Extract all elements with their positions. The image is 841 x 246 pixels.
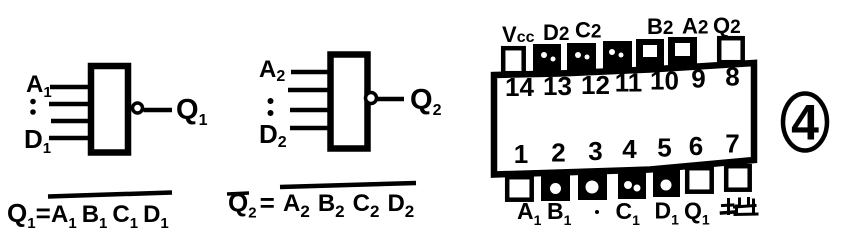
svg-text:2: 2 xyxy=(551,138,565,168)
gate U2 (4-input NAND, middle) xyxy=(331,55,368,149)
ellipsis dots U1 inputs xyxy=(30,99,36,115)
pin 7 (GND) bottom square xyxy=(726,166,750,190)
wire U2 input D2 xyxy=(290,126,329,131)
pin 12 (C2) top square xyxy=(567,43,596,72)
svg-text:6: 6 xyxy=(689,131,703,161)
svg-text:C2: C2 xyxy=(575,18,601,43)
pin 11 top square xyxy=(603,41,632,70)
U1 output inversion bubble xyxy=(133,103,143,113)
ground label (Chinese di, pin 7) xyxy=(722,199,758,215)
svg-text:11: 11 xyxy=(615,68,643,98)
svg-text:B2: B2 xyxy=(647,14,673,39)
wire U2 input B2 xyxy=(288,88,329,93)
wire U2 output xyxy=(378,97,405,102)
pin 5 (D1) bottom square xyxy=(653,166,680,197)
svg-text:4: 4 xyxy=(622,134,637,164)
wire U1 input A1 xyxy=(50,85,90,90)
svg-text:9: 9 xyxy=(691,64,705,94)
pin 14 (Vcc) top square xyxy=(503,48,524,73)
gate U1 (4-input NAND, left) xyxy=(91,66,128,153)
wire U1 input C1 xyxy=(51,119,90,124)
wire U2 input A2 xyxy=(291,70,329,75)
pin 10 (B2) top square xyxy=(636,39,664,68)
wire U1 input B1 xyxy=(49,102,90,107)
svg-text:A2: A2 xyxy=(682,14,708,39)
wire U1 output xyxy=(144,108,173,113)
figure number 4 circle xyxy=(783,94,827,151)
pin 1 (A1) bottom square xyxy=(507,177,532,200)
svg-text:5: 5 xyxy=(657,133,671,163)
svg-text:10: 10 xyxy=(650,66,679,96)
svg-text:Q2: Q2 xyxy=(713,13,741,38)
ellipsis dots U2 inputs xyxy=(268,98,274,116)
svg-text:8: 8 xyxy=(725,62,739,92)
equation Q1 = not(A1 B1 C1 D1) xyxy=(7,193,172,233)
noise speck xyxy=(595,210,599,214)
svg-text:D2: D2 xyxy=(543,20,569,45)
svg-text:14: 14 xyxy=(505,72,534,102)
svg-text:13: 13 xyxy=(543,71,572,101)
pin 2 (B1) bottom square xyxy=(541,172,570,201)
pin 6 (Q1) bottom square xyxy=(687,168,712,192)
pin 4 (C1) bottom square xyxy=(618,168,646,199)
svg-text:3: 3 xyxy=(588,136,602,166)
wire U1 input D1 xyxy=(49,136,90,141)
svg-text:12: 12 xyxy=(581,70,610,100)
wire U2 input C2 xyxy=(290,108,329,113)
pin 9 (A2) top square xyxy=(668,37,697,66)
U2 output inversion bubble xyxy=(366,93,377,104)
svg-text:7: 7 xyxy=(725,129,739,159)
svg-text:1: 1 xyxy=(514,139,528,169)
equation Q2 = not(A2 B2 C2 D2) xyxy=(227,183,416,222)
pin 13 (D2) top square xyxy=(533,44,561,74)
pin 3 bottom square xyxy=(578,170,607,200)
svg-text:4: 4 xyxy=(791,95,819,151)
pin 8 (Q2) top square xyxy=(719,38,743,62)
IC package U3 DIP-14 body xyxy=(494,63,754,175)
